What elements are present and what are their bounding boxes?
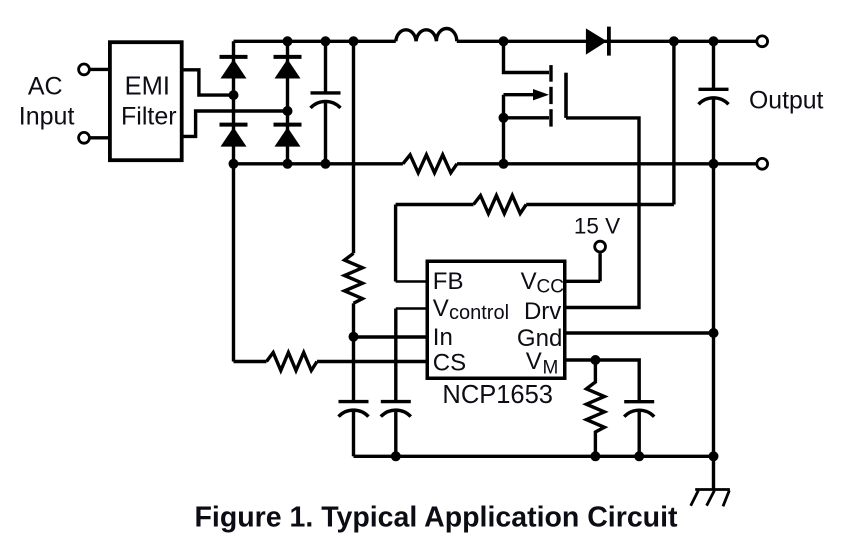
wire second rail left segment — [234, 162, 403, 165]
wire bottom rail — [354, 455, 715, 458]
node second rail / output cap — [709, 159, 719, 169]
node Gnd junction — [709, 328, 719, 338]
wire FB drop — [394, 205, 397, 282]
svg-text:Input: Input — [19, 102, 75, 130]
node top rail / output cap — [709, 36, 719, 46]
wire FB pin — [396, 280, 427, 283]
capacitor Vcontrol bottom lead — [394, 412, 397, 457]
svg-text:15 V: 15 V — [574, 213, 620, 238]
node VM resistor top — [590, 355, 600, 365]
capacitor bulk top lead — [324, 41, 327, 93]
node top rail / right column — [283, 36, 293, 46]
node bottom rail / Vcontrol cap — [391, 451, 401, 461]
resistor feedback — [474, 196, 527, 214]
transistor Q1 source lead — [504, 116, 550, 119]
resistor CS — [267, 353, 318, 371]
wire In pin — [354, 335, 428, 338]
resistor divider vertical — [345, 253, 363, 303]
EMI filter box — [110, 42, 182, 160]
wire VCC pin — [567, 280, 601, 283]
node In pin junction — [349, 332, 359, 342]
diode D6 bridge top-right — [274, 55, 302, 79]
wire Gnd pin — [567, 331, 714, 334]
capacitor output top lead — [712, 41, 715, 89]
wire Vcontrol drop — [394, 309, 397, 402]
capacitor VM plate — [624, 400, 654, 403]
15V terminal — [595, 241, 606, 252]
AC input terminal bottom — [79, 132, 90, 143]
capacitor output plate — [699, 88, 729, 91]
capacitor bulk curved plate — [311, 101, 341, 107]
svg-text:CC: CC — [537, 277, 564, 298]
output terminal top — [757, 36, 768, 47]
svg-text:EMI: EMI — [125, 72, 170, 100]
node bridge left mid — [229, 90, 239, 100]
wire FB feedback line right — [526, 203, 674, 206]
svg-text:In: In — [433, 324, 453, 351]
resistor VM vertical — [586, 360, 604, 456]
wire AC terminal bottom lead — [91, 136, 110, 139]
node top rail / feedback — [669, 36, 679, 46]
transistor Q1 gate bar — [564, 73, 568, 118]
wire bridge left column — [232, 41, 235, 361]
wire bridge right column — [286, 41, 289, 164]
node bottom rail / VM resistor — [590, 451, 600, 461]
capacitor output curved plate — [699, 98, 729, 104]
diode D5 bridge top-left — [220, 55, 248, 79]
node second rail / right column — [283, 159, 293, 169]
capacitor Vcontrol curved plate — [381, 410, 411, 416]
wire FB top feedback line — [396, 203, 474, 206]
capacitor In filter top lead — [352, 337, 355, 402]
capacitor In filter bottom lead — [352, 412, 355, 457]
node dots — [229, 36, 719, 461]
node second rail / source — [499, 159, 509, 169]
svg-text:M: M — [543, 358, 559, 379]
node second rail / bulk cap — [321, 159, 331, 169]
wire VCC riser — [598, 253, 601, 281]
svg-text:AC: AC — [28, 72, 63, 100]
svg-text:control: control — [449, 302, 509, 324]
node bottom rail / VM cap — [634, 451, 644, 461]
transistor Q1 drain lead — [504, 41, 550, 72]
node bridge right mid — [283, 106, 293, 116]
wire top rail left segment — [234, 40, 396, 43]
diode D1 boost — [586, 27, 611, 56]
wire CS line right — [317, 360, 427, 363]
transistor Q1 body arrow shaft — [504, 93, 538, 96]
svg-text:CS: CS — [433, 350, 466, 377]
capacitor VM bottom lead — [638, 412, 641, 457]
svg-text:V: V — [521, 268, 537, 295]
wire output sense drop — [672, 41, 675, 204]
output terminal bottom — [757, 158, 768, 169]
wire top rail right segment — [457, 40, 756, 43]
svg-text:V: V — [526, 348, 542, 375]
wire CS line — [234, 360, 267, 363]
transistor Q1 source drop — [502, 95, 505, 164]
capacitor In filter curved plate — [339, 410, 369, 416]
svg-text:Output: Output — [749, 88, 824, 115]
capacitor Vcontrol plate — [381, 400, 411, 403]
wire VM pin — [567, 360, 640, 402]
diode D8 bridge bottom-right — [274, 123, 302, 147]
node top rail / divider — [349, 36, 359, 46]
svg-text:Filter: Filter — [121, 102, 177, 130]
wire EMI upper output — [184, 70, 234, 95]
wire second rail right segment — [457, 162, 756, 165]
diode D7 bridge bottom-left — [220, 123, 248, 147]
wire output return / ground column — [712, 99, 715, 488]
op-amp U1 NCP1653 box — [427, 261, 565, 378]
capacitor bulk plate — [311, 91, 341, 94]
wire AC terminal top lead — [91, 68, 110, 71]
capacitor In filter plate — [339, 400, 369, 403]
transistor Q1 channel bars — [549, 65, 552, 127]
svg-text:Drv: Drv — [524, 298, 561, 325]
transistor Q1 gate wire — [566, 118, 639, 308]
svg-text:FB: FB — [433, 268, 464, 295]
node top rail / bulk cap — [321, 36, 331, 46]
inductor L1 — [396, 29, 457, 42]
ground symbol — [691, 490, 730, 507]
AC input terminal top — [79, 64, 90, 75]
wire divider top — [352, 41, 355, 253]
wire Vcontrol pin — [396, 307, 427, 310]
wire EMI lower output — [184, 111, 288, 136]
svg-text:V: V — [433, 295, 449, 322]
wire divider to In dot — [352, 303, 355, 336]
svg-text:NCP1653: NCP1653 — [442, 381, 553, 409]
capacitor bulk bottom lead — [324, 103, 327, 164]
node second rail / left column — [229, 159, 239, 169]
svg-text:Figure 1. Typical Application: Figure 1. Typical Application Circuit — [195, 502, 678, 534]
transistor Q1 body arrow head — [533, 89, 549, 100]
capacitor VM curved plate — [624, 410, 654, 416]
node top rail / drain — [499, 36, 509, 46]
node bottom rail / ground — [709, 451, 719, 461]
node source-body tie — [499, 113, 509, 123]
resistor sense (current shunt) — [403, 155, 457, 173]
